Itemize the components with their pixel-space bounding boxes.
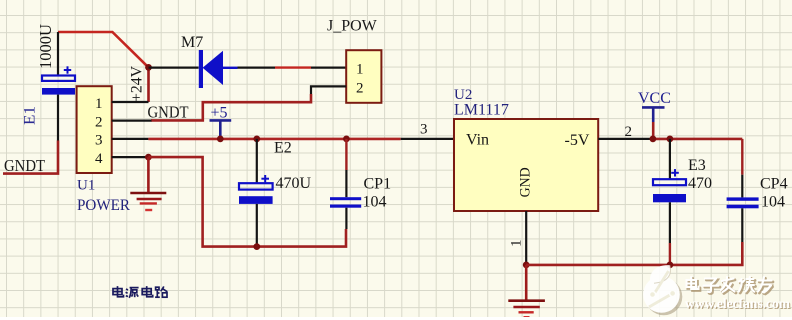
svg-text:GNDT: GNDT xyxy=(4,156,46,175)
pin number 3 xyxy=(420,122,428,138)
bottom white margin strip xyxy=(0,317,792,320)
node +24V junction xyxy=(145,64,152,71)
title text 电源电路 xyxy=(113,286,167,298)
svg-text:-5V: -5V xyxy=(565,132,590,149)
wire pin4 node to bottom rail xyxy=(148,157,346,247)
svg-text:1: 1 xyxy=(95,96,103,112)
svg-text:POWER: POWER xyxy=(77,197,130,214)
pin 2 of U1 xyxy=(95,114,103,130)
node E2 bottom junction xyxy=(253,243,260,250)
svg-text:1: 1 xyxy=(509,240,525,248)
pin 1 of U1 xyxy=(95,96,103,112)
ground GND1 xyxy=(130,157,166,210)
wire bottom right rail xyxy=(526,242,742,265)
svg-text:470: 470 xyxy=(688,175,712,192)
regulator U2 xyxy=(454,119,598,211)
svg-text:U2: U2 xyxy=(454,87,472,103)
watermark url www.elecfans.com xyxy=(685,296,792,312)
pin label GND xyxy=(518,167,534,197)
wire +24V node to diode xyxy=(149,66,199,68)
part name POWER xyxy=(77,197,130,214)
node E3 bottom junction xyxy=(667,262,674,269)
net label GNDT (left) xyxy=(4,156,46,175)
svg-text:2: 2 xyxy=(356,80,364,96)
node +5 junction xyxy=(217,136,224,143)
svg-text:4: 4 xyxy=(95,151,103,167)
wire U1 pin3 xyxy=(112,138,149,140)
svg-text:470U: 470U xyxy=(276,175,312,192)
capacitor E1 xyxy=(42,32,75,141)
wire E1 bottom to GNDT xyxy=(3,141,58,174)
pin 3 of U1 xyxy=(95,133,103,149)
connector U1 xyxy=(77,86,112,173)
svg-text:+5: +5 xyxy=(211,105,228,122)
svg-text:2: 2 xyxy=(625,124,633,140)
value 470U xyxy=(276,175,312,192)
node VCC junction xyxy=(650,136,657,143)
wire J_POW pin2 to GNDT xyxy=(151,86,346,120)
svg-text:2: 2 xyxy=(95,114,103,130)
wire U1 pin4 xyxy=(112,156,149,158)
value 104 (CP4) xyxy=(761,194,785,211)
designator J_POW xyxy=(327,17,378,34)
pin 4 of U1 xyxy=(95,151,103,167)
designator E1 xyxy=(22,106,39,125)
designator U2 xyxy=(454,87,472,103)
designator E3 xyxy=(688,157,706,174)
wire +5 rail to U2 pin3 xyxy=(148,138,453,141)
wire U2 pin2 to VCC xyxy=(598,138,742,140)
svg-text:J_POW: J_POW xyxy=(327,17,378,34)
svg-text:VCC: VCC xyxy=(638,90,671,107)
svg-text:LM1117: LM1117 xyxy=(454,102,509,119)
power port VCC xyxy=(638,90,671,139)
pin number 2 xyxy=(625,124,633,140)
svg-text:Vin: Vin xyxy=(466,131,489,148)
wire +24V stem xyxy=(147,67,150,102)
pin label -5V xyxy=(565,132,590,149)
svg-text:www.elecfans.com: www.elecfans.com xyxy=(685,296,791,311)
wire U1 pin1 xyxy=(112,101,149,103)
wire U1 pin2 xyxy=(112,119,152,121)
designator M7 xyxy=(181,34,203,51)
svg-text:M7: M7 xyxy=(181,34,203,51)
capacitor E2 xyxy=(239,139,273,247)
value 470 xyxy=(688,175,712,192)
svg-text:104: 104 xyxy=(363,194,387,211)
designator U1 xyxy=(77,178,95,194)
svg-text:E3: E3 xyxy=(688,157,706,174)
value 104 xyxy=(363,194,387,211)
svg-text:+24V: +24V xyxy=(129,66,146,102)
diode M7 xyxy=(199,50,238,88)
pin label Vin xyxy=(466,131,489,148)
svg-text:1: 1 xyxy=(356,62,364,78)
net label GNDT xyxy=(148,103,190,122)
svg-text:GNDT: GNDT xyxy=(148,103,190,122)
capacitor CP1 xyxy=(330,139,361,229)
wire U2 pin1 xyxy=(525,211,527,265)
capacitor CP4 xyxy=(727,139,759,242)
part name LM1117 xyxy=(454,102,509,119)
designator E2 xyxy=(274,140,292,157)
ground GND2 xyxy=(508,265,545,317)
pin number 1 xyxy=(509,240,525,248)
svg-text:1000U: 1000U xyxy=(36,24,55,69)
connector J_POW xyxy=(346,50,381,103)
svg-text:CP1: CP1 xyxy=(364,176,392,193)
pin 2 of J_POW xyxy=(356,80,364,96)
designator CP4 xyxy=(760,175,788,192)
wire E1 top to +24V node xyxy=(58,32,149,67)
svg-text:104: 104 xyxy=(761,194,785,211)
svg-text:3: 3 xyxy=(420,122,428,138)
capacitor E3 xyxy=(653,139,686,265)
node E2 top junction xyxy=(253,136,260,143)
svg-text:U1: U1 xyxy=(77,178,95,194)
watermark logo elecfans xyxy=(643,265,682,315)
node U1 pin4 junction xyxy=(145,154,152,161)
svg-text:CP4: CP4 xyxy=(760,175,788,192)
svg-text:3: 3 xyxy=(95,133,103,149)
designator CP1 xyxy=(364,176,392,193)
svg-text:GND: GND xyxy=(518,167,534,197)
wire diode to J_POW pin1 xyxy=(238,66,347,68)
net label +24V xyxy=(129,66,146,102)
svg-text:E2: E2 xyxy=(274,140,292,157)
power port +5 xyxy=(210,105,232,139)
node E3 top junction xyxy=(667,136,674,143)
node CP1 top junction xyxy=(343,136,350,143)
node U2 pin1 junction xyxy=(523,262,530,269)
svg-text:E1: E1 xyxy=(22,106,39,125)
pin 1 of J_POW xyxy=(356,62,364,78)
value label 1000U xyxy=(36,24,55,69)
